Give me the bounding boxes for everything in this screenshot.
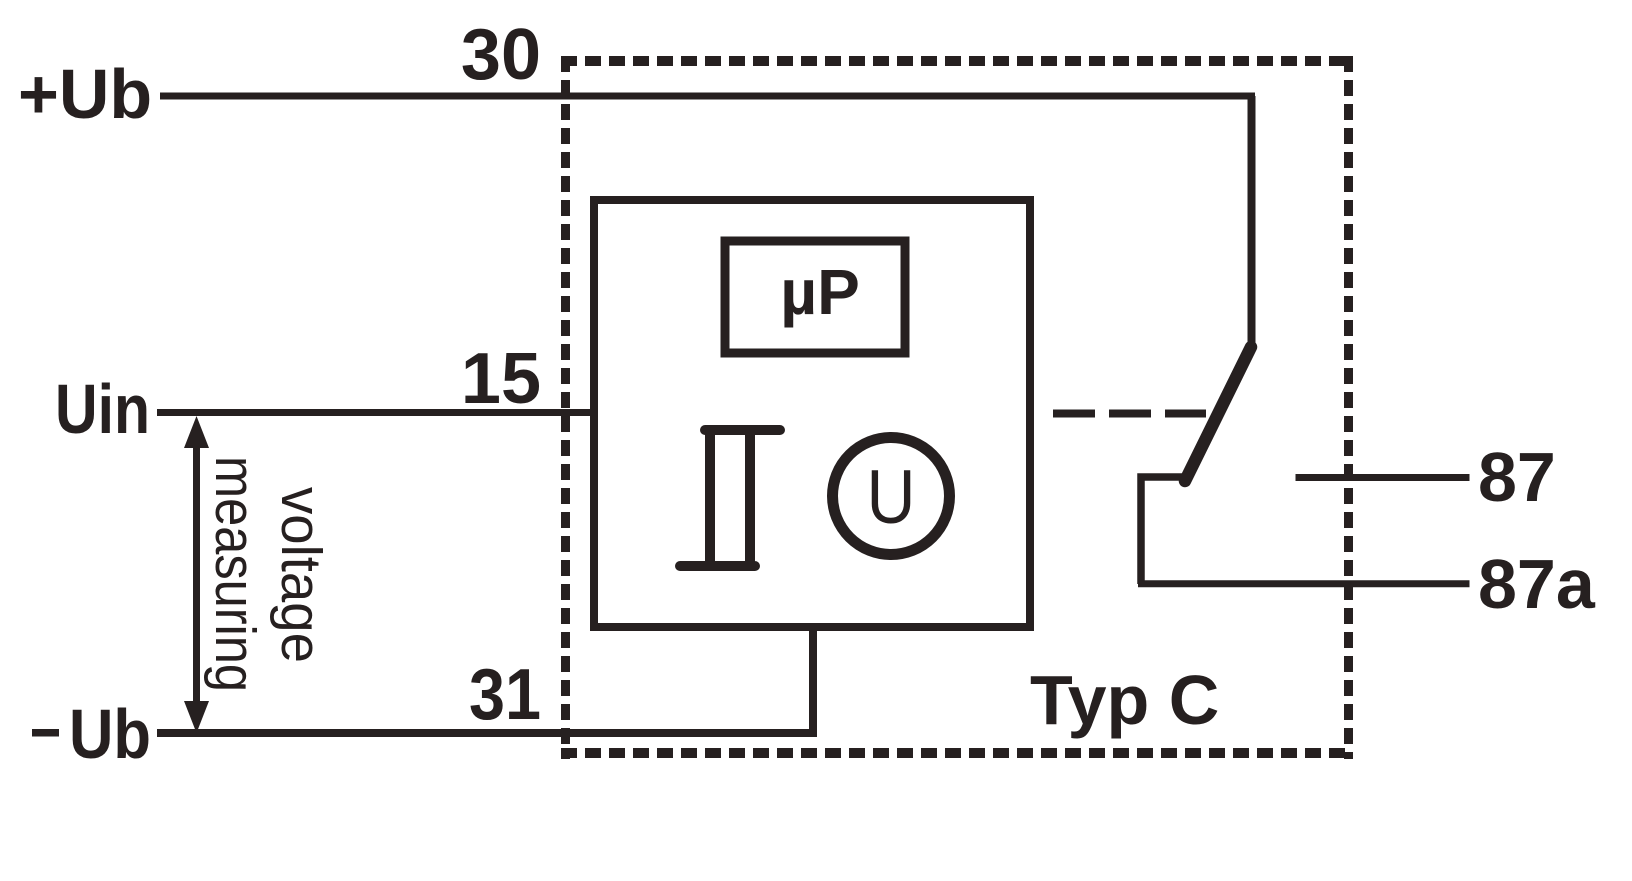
svg-text:87: 87 (1478, 438, 1556, 516)
svg-text:31: 31 (469, 655, 541, 735)
svg-text:Uin: Uin (55, 370, 150, 448)
wire 30 supply (+Ub to relay) (160, 93, 1255, 100)
svg-text:µP: µP (780, 256, 860, 328)
wire terminal 87a (1138, 580, 1470, 587)
relay enclosure dashed border left (561, 56, 570, 759)
wire Uin to terminal 15 (157, 409, 594, 416)
label -Ub (32, 729, 59, 737)
wire terminal 87 (1296, 474, 1470, 481)
threshold step symbol (680, 430, 780, 566)
wire 31 (-Ub to module) (157, 729, 817, 737)
svg-text:30: 30 (461, 15, 541, 95)
svg-text:measuring: measuring (203, 456, 267, 692)
contact pivot bracket (1141, 477, 1192, 584)
wire from terminal 30 down to contact (1248, 96, 1256, 345)
svg-text:Ub: Ub (69, 695, 151, 773)
svg-text:U: U (867, 455, 916, 540)
svg-text:Typ C: Typ C (1030, 661, 1219, 739)
microprocessor box µP (725, 241, 905, 353)
relay enclosure dashed border bottom (561, 748, 1350, 758)
relay enclosure dashed border top (561, 56, 1350, 66)
relay enclosure dashed border right (1344, 56, 1353, 759)
voltage sensor circle U (833, 438, 950, 555)
svg-text:voltage: voltage (269, 487, 333, 663)
relay contact blade (1185, 347, 1251, 481)
measuring voltage arrow (193, 440, 200, 710)
wire 31 riser to module (809, 629, 817, 733)
actuation dashed link (1053, 410, 1206, 418)
svg-text:15: 15 (461, 339, 541, 419)
control module box U1 (594, 200, 1030, 627)
svg-text:+Ub: +Ub (18, 55, 152, 133)
svg-text:87a: 87a (1478, 545, 1596, 623)
